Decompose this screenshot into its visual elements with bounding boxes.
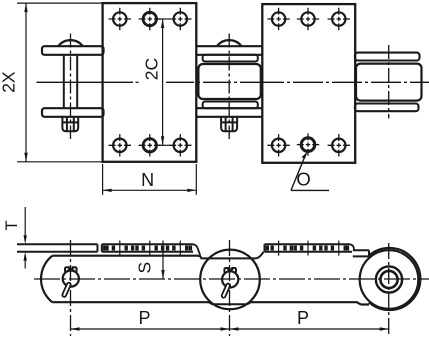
pin P2 dome head (217, 40, 242, 46)
right joint vertical centerline (388, 45, 390, 119)
side view horizontal centerline (34, 278, 429, 280)
serration tick marks, left attachment (105, 246, 191, 251)
serration tick marks, right attachment (267, 246, 347, 251)
svg-text:N: N (141, 170, 154, 190)
dimension N: dimension line with arrows (103, 189, 197, 191)
cotter pin at P2: bent leg (224, 285, 229, 295)
right roller pin bore (bold) (380, 271, 397, 288)
svg-text:2C: 2C (142, 58, 162, 80)
horizontal centerline of chain (plan view) (37, 81, 429, 83)
hole center marks, left plate (109, 8, 192, 157)
hole center marks, right plate (267, 8, 350, 157)
pin P1 shaft (64, 55, 77, 108)
right joint: roller link plate bars (355, 53, 420, 112)
cotter pin at P1: boss circle (63, 271, 79, 287)
holes of left attachment plate (top row) (113, 12, 187, 25)
pin P1 vertical centerline (70, 34, 72, 140)
attachment flange, left serrated section (plate 1 edge) (102, 244, 201, 255)
link plate bottom edge (52, 301, 209, 303)
holes of right attachment plate (bottom row, middle hole bold = O) (272, 138, 346, 152)
link plate top edge (52, 255, 198, 257)
dimension T: dimension line with outside arrows (24, 207, 26, 269)
dimension 2C: connectors and dimension line with arrows (156, 19, 169, 145)
pin link plate bars (edge view) at left pin (42, 46, 104, 117)
middle joint: pin link plate bars between attachment plates (196, 46, 262, 117)
right roller R3 (side view) (360, 250, 419, 309)
dimension P (left span): dimension line with arrows (71, 328, 230, 330)
middle roller (plan view) (198, 64, 260, 99)
bolt hole centerline ticks, left attachment (120, 241, 181, 256)
bottom saddle at middle roller (209, 302, 251, 304)
svg-text:T: T (3, 220, 21, 230)
svg-text:P: P (138, 308, 150, 328)
attachment flange, right serrated section (plate 2 edge) (265, 244, 355, 251)
link plate rounded left end (41, 256, 52, 303)
svg-text:O: O (296, 168, 310, 189)
cotter pin at P2: boss circle (222, 271, 238, 287)
pin P2 castellated cotter end (221, 117, 237, 131)
dimension N: extension lines (103, 164, 197, 195)
P2 vertical centerline / extension (229, 240, 231, 336)
holes of left attachment plate (bottom row) (113, 139, 187, 152)
right link plate rounded end (369, 248, 420, 310)
dimension P (right span): dimension line with arrows (230, 328, 389, 330)
short lowered bar piece before right roller (353, 250, 369, 256)
link plate bottom edge, right section (251, 302, 370, 304)
right roller bushing circle (376, 266, 402, 292)
P1 vertical centerline / extension (70, 240, 72, 336)
R3 vertical centerline / extension (388, 243, 390, 336)
middle joint: roller link plate bars (203, 55, 258, 108)
cotter pin at P2: folded head (224, 268, 236, 273)
right roller (plan view) (356, 64, 422, 101)
cotter pin at P1: bent leg (64, 285, 69, 295)
right attachment plate (262, 4, 355, 163)
label O: leader arrow to bolted hole (291, 156, 305, 191)
dimension S: dimension line with arrow (162, 241, 164, 280)
middle roller R2 (side view) (200, 250, 260, 310)
top saddle at middle roller (198, 252, 264, 259)
dimension 2X: extension lines (17, 3, 103, 162)
attachment flange bar, left plain section (17, 244, 98, 251)
holes of right attachment plate (top row) (272, 12, 346, 25)
pin P1 dome head (58, 40, 83, 46)
pin P2 vertical centerline (228, 34, 230, 140)
cotter pin at P1: folded head (65, 267, 77, 272)
left attachment plate (103, 3, 197, 162)
bolt hole centerline ticks, right attachment (279, 241, 339, 256)
svg-text:P: P (297, 308, 309, 328)
dimension 2X: dimension line with arrows (25, 3, 27, 162)
svg-text:S: S (134, 262, 154, 274)
pin P1 castellated cotter end (62, 117, 78, 131)
svg-text:2X: 2X (0, 71, 19, 93)
